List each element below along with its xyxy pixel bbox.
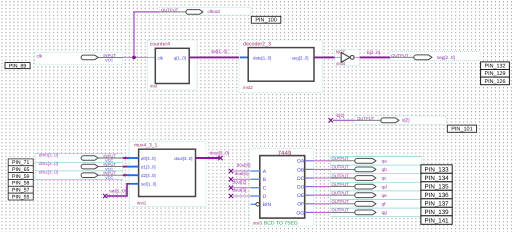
svg-text:inst4: inst4 (336, 61, 346, 66)
input pin symbol din1[3..0] (35, 161, 123, 172)
pin location box PIN_100 (251, 16, 280, 23)
svg-text:seg[2..0]: seg[2..0] (437, 55, 455, 60)
svg-text:s[2]: s[2] (402, 118, 410, 123)
component decoder2_3 inst2 (239, 40, 322, 92)
svg-text:inst3: inst3 (253, 221, 263, 226)
svg-text:OUTPUT: OUTPUT (332, 173, 350, 178)
wire b[2] net with dangling cross (329, 113, 355, 122)
svg-text:PIN_126: PIN_126 (485, 79, 506, 85)
svg-text:PIN_57: PIN_57 (12, 188, 29, 194)
svg-text:inst: inst (150, 83, 158, 88)
svg-text:qe: qe (382, 193, 388, 198)
svg-text:dout[3..0]: dout[3..0] (210, 151, 229, 156)
svg-text:dout[2]: dout[2] (233, 179, 247, 184)
svg-text:BCD TO 7SEG: BCD TO 7SEG (264, 221, 298, 227)
svg-text:OUTPUT: OUTPUT (332, 156, 350, 161)
svg-text:OC: OC (297, 176, 305, 182)
svg-text:OUTPUT: OUTPUT (391, 53, 409, 58)
svg-text:qb: qb (382, 167, 388, 172)
wire OC to output qc (305, 177, 331, 179)
svg-text:PIN_141: PIN_141 (425, 217, 450, 224)
svg-text:OG: OG (296, 210, 304, 216)
wire OG to output qg (305, 211, 331, 213)
output pin symbol s[2] (355, 116, 447, 125)
svg-text:D: D (263, 194, 267, 200)
bus dout[3..0] from mux with dangling cross (196, 151, 229, 160)
svg-text:din2[3..0]: din2[3..0] (39, 170, 58, 175)
svg-text:VCC: VCC (105, 58, 113, 63)
svg-text:PIN_136: PIN_136 (425, 192, 450, 199)
svg-text:inst1: inst1 (137, 201, 147, 206)
svg-text:OUTPUT: OUTPUT (332, 199, 350, 204)
svg-text:PIN_100: PIN_100 (255, 18, 276, 24)
svg-text:b[2..0]: b[2..0] (367, 50, 380, 55)
svg-text:q[1..0]: q[1..0] (174, 55, 186, 60)
output pin symbol qg (331, 208, 422, 217)
output pin symbol qb (331, 165, 422, 174)
svg-text:PIN_139: PIN_139 (425, 209, 450, 216)
svg-text:PIN_129: PIN_129 (485, 71, 506, 77)
svg-text:PIN_137: PIN_137 (425, 200, 450, 207)
svg-text:qc: qc (382, 176, 388, 181)
output pin symbol qf (331, 199, 422, 208)
wire OE to output qe (305, 194, 331, 196)
svg-text:sel[1..0]: sel[1..0] (110, 189, 126, 194)
svg-text:qd: qd (382, 184, 388, 189)
svg-text:qf: qf (382, 202, 387, 207)
svg-text:PIN_134: PIN_134 (425, 175, 450, 182)
svg-text:data[1..0]: data[1..0] (253, 55, 271, 60)
svg-text:PIN_89: PIN_89 (9, 63, 27, 69)
svg-text:OF: OF (297, 202, 304, 208)
svg-text:dout[1]: dout[1] (235, 171, 249, 176)
svg-text:sel[1..0]: sel[1..0] (211, 49, 227, 54)
svg-text:b[2]: b[2] (337, 113, 345, 118)
bus seg[2..0] (decoder2_3 to NOT) (314, 56, 335, 58)
wire OF to output qf (305, 203, 331, 205)
component 7449 inst3 (249, 149, 313, 227)
bus b[2..0] (NOT to seg OUTPUT) (360, 50, 390, 57)
wire dout[1] into 7449 with dangling cross (229, 171, 260, 181)
svg-text:PIN_132: PIN_132 (485, 64, 506, 70)
svg-text:PIN_101: PIN_101 (451, 127, 472, 133)
pin location boxes PIN_132 PIN_129 PIN_126 (481, 62, 510, 85)
svg-text:OUTPUT: OUTPUT (332, 191, 350, 196)
component mux4_3_1 inst1 (129, 142, 206, 207)
bus sel[1..0] (counter4 to decoder2_3) (189, 49, 240, 58)
svg-text:OE: OE (297, 193, 305, 199)
svg-text:d2[3..0]: d2[3..0] (141, 173, 156, 178)
svg-text:clk: clk (37, 54, 43, 59)
wire din1 (input symbol to mux) (123, 166, 139, 168)
pin location box PIN_101 (447, 125, 476, 133)
svg-text:OUTPUT: OUTPUT (357, 116, 375, 121)
svg-text:PIN_71: PIN_71 (12, 160, 29, 166)
svg-text:din0[3..0]: din0[3..0] (39, 152, 58, 157)
junction clk net (132, 56, 136, 60)
wire clk net (123, 56, 148, 58)
svg-text:OA: OA (297, 159, 305, 165)
svg-text:PIN_135: PIN_135 (425, 183, 450, 190)
wire clkout net (junction to clkout OUTPUT) (134, 12, 160, 58)
wire din2 (input symbol to mux) (123, 174, 139, 176)
wire sel[1..0] into mux with dangling cross (103, 184, 138, 198)
svg-text:dout[3]: dout[3] (233, 188, 247, 193)
input pin symbol din0[3..0] (35, 152, 123, 163)
output pin symbol qe (331, 191, 422, 200)
svg-text:din1[3..0]: din1[3..0] (39, 161, 58, 166)
svg-text:decoder2_3: decoder2_3 (243, 41, 271, 47)
output pin symbol qc (331, 173, 422, 182)
svg-text:BIN: BIN (263, 202, 272, 208)
svg-text:qa: qa (382, 159, 388, 164)
svg-text:PIN_59: PIN_59 (12, 174, 29, 180)
svg-text:inst2: inst2 (243, 85, 253, 90)
gate NOT inst4 (335, 49, 360, 66)
output pin symbol seg[2..0] (390, 52, 480, 61)
svg-text:C: C (263, 186, 267, 192)
wire dout[0] into 7449 with dangling cross (229, 163, 260, 173)
svg-text:PIN_58: PIN_58 (12, 181, 29, 187)
pin location box PIN_89 (5, 63, 30, 70)
svg-text:PIN_133: PIN_133 (425, 166, 450, 173)
svg-text:OUTPUT: OUTPUT (161, 8, 179, 13)
svg-text:sel[1..0]: sel[1..0] (141, 182, 156, 187)
svg-text:clk: clk (158, 55, 164, 60)
input pin symbol clk (34, 52, 122, 64)
component counter4 inst (148, 40, 198, 90)
svg-text:PIN_55: PIN_55 (12, 194, 29, 200)
svg-text:seg[2..0]: seg[2..0] (292, 55, 309, 60)
svg-text:dout[3..0]: dout[3..0] (174, 156, 192, 161)
svg-text:PIN_65: PIN_65 (12, 167, 29, 173)
wire OB to output qb (305, 168, 331, 170)
stacked symbol boundary lines (output column) (331, 157, 422, 217)
output pin symbol qd (331, 182, 422, 191)
svg-text:OB: OB (297, 167, 305, 173)
svg-text:d0[3..0]: d0[3..0] (141, 156, 156, 161)
svg-text:qg: qg (382, 210, 388, 215)
wire dout[2] into 7449 with dangling cross (229, 179, 260, 189)
svg-text:clkout: clkout (208, 9, 221, 14)
wire OD to output qd (305, 186, 331, 188)
pin location boxes PIN_133..PIN_141 (421, 165, 452, 225)
wire OA to output qa (305, 160, 331, 162)
svg-text:OD: OD (297, 185, 305, 191)
output pin symbol qa (331, 156, 422, 165)
svg-text:counter4: counter4 (150, 42, 170, 48)
svg-text:mux4_3_1: mux4_3_1 (134, 143, 158, 149)
wire dout[3] into 7449 with dangling cross (229, 188, 260, 198)
svg-text:dout[0]: dout[0] (237, 163, 251, 168)
wire din0 (input symbol to mux) (123, 157, 139, 159)
svg-text:d1[3..0]: d1[3..0] (141, 165, 156, 170)
output pin symbol clkout (160, 7, 251, 15)
pin location boxes PIN_71 PIN_65 PIN_59 PIN_58 PIN_57 PIN_55 (8, 159, 33, 201)
stacked symbol boundary lines (din input column) (35, 154, 123, 180)
input pin symbol din2[3..0] (35, 170, 123, 181)
